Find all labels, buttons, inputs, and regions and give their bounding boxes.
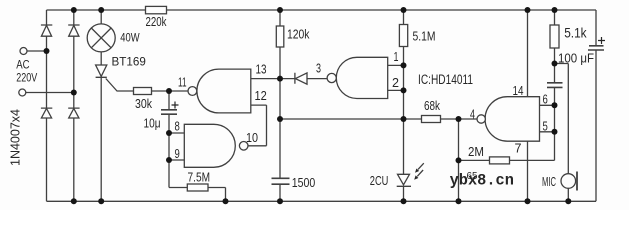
svg-text:220V: 220V — [16, 71, 37, 85]
svg-text:10: 10 — [246, 130, 258, 145]
svg-text:2: 2 — [392, 75, 399, 90]
svg-text:7: 7 — [515, 141, 522, 156]
svg-text:100 μF: 100 μF — [558, 51, 594, 66]
svg-text:BT169: BT169 — [112, 55, 146, 69]
svg-text:30k: 30k — [135, 96, 152, 111]
svg-text:8: 8 — [175, 119, 180, 134]
svg-text:11: 11 — [178, 75, 187, 90]
svg-text:2M: 2M — [468, 144, 484, 159]
svg-text:3: 3 — [316, 61, 321, 76]
svg-text:2CU: 2CU — [370, 173, 389, 188]
svg-text:14: 14 — [513, 83, 524, 98]
svg-text:MIC: MIC — [542, 174, 556, 189]
svg-text:1N4007x4: 1N4007x4 — [8, 109, 23, 166]
svg-text:10μ: 10μ — [144, 116, 161, 131]
svg-text:12: 12 — [255, 88, 267, 103]
svg-text:220k: 220k — [146, 14, 167, 29]
svg-text:9: 9 — [175, 146, 180, 161]
svg-text:5: 5 — [543, 118, 548, 133]
svg-text:5.1M: 5.1M — [413, 29, 436, 44]
svg-text:4: 4 — [470, 107, 475, 122]
svg-text:1500: 1500 — [292, 175, 316, 190]
svg-text:120k: 120k — [287, 27, 310, 42]
svg-text:13: 13 — [256, 62, 267, 77]
svg-text:6: 6 — [543, 92, 548, 107]
svg-text:1: 1 — [394, 49, 399, 64]
svg-text:ybx8.cn: ybx8.cn — [450, 172, 514, 190]
svg-text:5.1k: 5.1k — [564, 26, 587, 41]
svg-text:68k: 68k — [424, 98, 440, 113]
svg-text:7.5M: 7.5M — [188, 170, 211, 185]
svg-text:AC: AC — [16, 58, 30, 72]
svg-text:IC:HD14011: IC:HD14011 — [418, 72, 473, 87]
svg-text:40W: 40W — [120, 31, 140, 45]
